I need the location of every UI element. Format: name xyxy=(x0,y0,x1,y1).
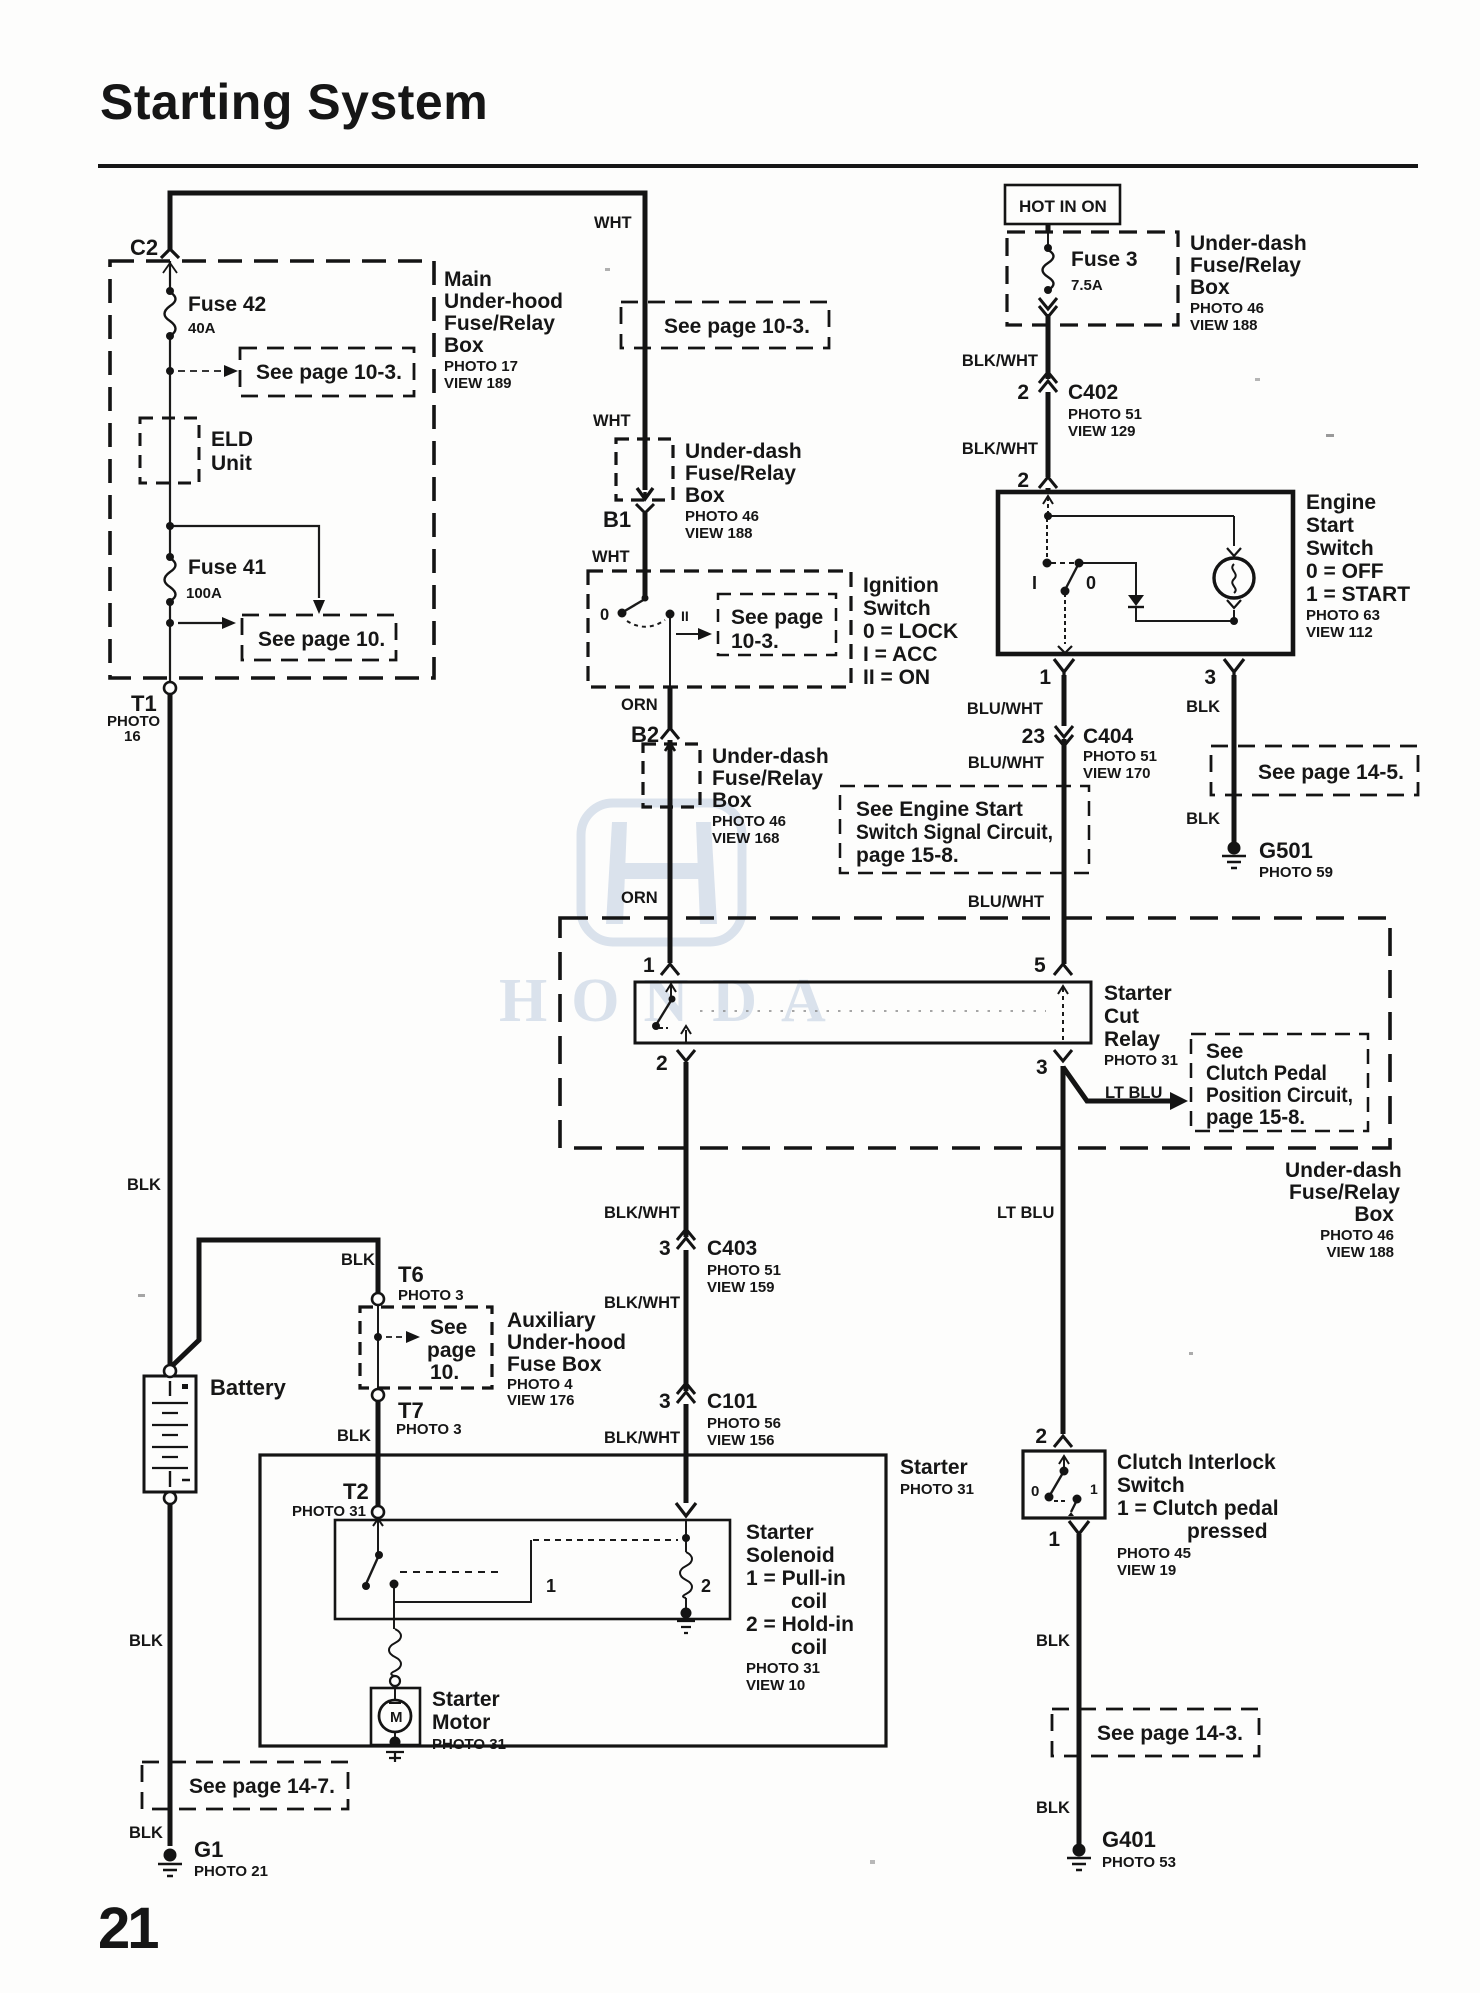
svg-text:PHOTO 21: PHOTO 21 xyxy=(194,1863,268,1880)
svg-text:LT BLU: LT BLU xyxy=(997,1204,1054,1222)
svg-text:0: 0 xyxy=(1031,1483,1039,1500)
svg-text:WHT: WHT xyxy=(594,214,632,232)
svg-text:BLK/WHT: BLK/WHT xyxy=(962,440,1038,458)
svg-text:I: I xyxy=(1032,573,1037,593)
svg-text:BLK: BLK xyxy=(1036,1799,1070,1817)
svg-text:5: 5 xyxy=(1034,954,1046,977)
svg-text:40A: 40A xyxy=(188,320,216,337)
svg-text:Relay: Relay xyxy=(1104,1028,1160,1051)
svg-text:PHOTO 31: PHOTO 31 xyxy=(292,1503,366,1520)
svg-text:3: 3 xyxy=(659,1237,671,1260)
svg-text:Fuse/Relay: Fuse/Relay xyxy=(712,767,823,790)
svg-text:7.5A: 7.5A xyxy=(1071,277,1103,294)
svg-text:PHOTO 31: PHOTO 31 xyxy=(746,1660,820,1677)
svg-text:B1: B1 xyxy=(603,507,631,532)
svg-text:PHOTO 53: PHOTO 53 xyxy=(1102,1854,1176,1871)
svg-text:2: 2 xyxy=(1035,1425,1047,1448)
svg-text:See Engine Start: See Engine Start xyxy=(856,798,1023,821)
svg-text:Box: Box xyxy=(1354,1203,1394,1226)
svg-text:VIEW 188: VIEW 188 xyxy=(1326,1244,1394,1261)
svg-text:See: See xyxy=(1206,1040,1243,1063)
svg-text:C101: C101 xyxy=(707,1390,758,1413)
svg-text:PHOTO 31: PHOTO 31 xyxy=(900,1481,974,1498)
svg-text:BLU/WHT: BLU/WHT xyxy=(968,893,1044,911)
svg-text:page 15-8.: page 15-8. xyxy=(856,844,959,867)
svg-text:1: 1 xyxy=(643,954,655,977)
svg-text:Fuse Box: Fuse Box xyxy=(507,1353,602,1376)
svg-text:Fuse 42: Fuse 42 xyxy=(188,293,266,316)
svg-text:Switch: Switch xyxy=(863,597,931,620)
svg-text:PHOTO 17: PHOTO 17 xyxy=(444,358,518,375)
svg-text:3: 3 xyxy=(1204,666,1216,689)
svg-text:BLK: BLK xyxy=(1186,810,1220,828)
svg-text:1 = START: 1 = START xyxy=(1306,583,1410,606)
svg-text:BLU/WHT: BLU/WHT xyxy=(968,754,1044,772)
svg-text:VIEW 188: VIEW 188 xyxy=(685,525,753,542)
svg-text:VIEW 156: VIEW 156 xyxy=(707,1432,775,1449)
svg-text:0: 0 xyxy=(1086,573,1096,593)
svg-text:Switch: Switch xyxy=(1117,1474,1185,1497)
svg-text:I = ACC: I = ACC xyxy=(863,643,937,666)
svg-text:Starter: Starter xyxy=(746,1521,814,1544)
svg-text:pressed: pressed xyxy=(1187,1520,1268,1543)
svg-text:T2: T2 xyxy=(343,1479,369,1504)
svg-text:2: 2 xyxy=(1017,381,1029,404)
svg-text:HOT IN ON: HOT IN ON xyxy=(1019,197,1107,216)
svg-text:Auxiliary: Auxiliary xyxy=(507,1309,596,1332)
svg-text:2: 2 xyxy=(701,1576,711,1596)
svg-text:PHOTO 46: PHOTO 46 xyxy=(1190,300,1264,317)
svg-text:Fuse 41: Fuse 41 xyxy=(188,556,267,579)
svg-text:0 = LOCK: 0 = LOCK xyxy=(863,620,958,643)
svg-text:Switch: Switch xyxy=(1306,537,1374,560)
svg-text:Under-hood: Under-hood xyxy=(507,1331,626,1354)
svg-text:3: 3 xyxy=(659,1390,671,1413)
svg-text:Starter: Starter xyxy=(432,1688,500,1711)
svg-text:See page: See page xyxy=(731,606,823,629)
svg-text:23: 23 xyxy=(1022,725,1045,748)
svg-text:BLK: BLK xyxy=(1186,698,1220,716)
svg-text:Under-dash: Under-dash xyxy=(712,745,829,768)
svg-text:VIEW 10: VIEW 10 xyxy=(746,1677,805,1694)
svg-text:1: 1 xyxy=(546,1576,556,1596)
svg-text:PHOTO 51: PHOTO 51 xyxy=(1083,748,1157,765)
svg-text:M: M xyxy=(390,1709,403,1726)
svg-text:Box: Box xyxy=(685,484,725,507)
svg-text:VIEW 170: VIEW 170 xyxy=(1083,765,1151,782)
svg-text:VIEW 159: VIEW 159 xyxy=(707,1279,775,1296)
svg-text:Under-dash: Under-dash xyxy=(685,440,802,463)
svg-text:ORN: ORN xyxy=(621,889,658,907)
svg-text:Fuse/Relay: Fuse/Relay xyxy=(1190,254,1301,277)
svg-text:16: 16 xyxy=(124,728,141,745)
svg-text:PHOTO 31: PHOTO 31 xyxy=(432,1736,506,1753)
svg-text:Starter: Starter xyxy=(900,1456,968,1479)
svg-text:Ignition: Ignition xyxy=(863,574,939,597)
svg-text:See: See xyxy=(430,1316,467,1339)
svg-text:0: 0 xyxy=(600,606,609,624)
svg-text:BLK: BLK xyxy=(129,1824,163,1842)
svg-text:VIEW 176: VIEW 176 xyxy=(507,1392,575,1409)
svg-text:1 = Clutch pedal: 1 = Clutch pedal xyxy=(1117,1497,1279,1520)
svg-text:Position Circuit,: Position Circuit, xyxy=(1206,1084,1353,1107)
svg-text:BLK: BLK xyxy=(1036,1632,1070,1650)
svg-text:II: II xyxy=(681,608,689,624)
svg-text:Unit: Unit xyxy=(211,452,252,475)
svg-text:PHOTO 3: PHOTO 3 xyxy=(398,1287,464,1304)
svg-text:2: 2 xyxy=(1017,469,1029,492)
svg-text:Box: Box xyxy=(1190,276,1230,299)
svg-text:PHOTO 46: PHOTO 46 xyxy=(1320,1227,1394,1244)
svg-text:BLK/WHT: BLK/WHT xyxy=(604,1429,680,1447)
svg-text:PHOTO 46: PHOTO 46 xyxy=(685,508,759,525)
svg-text:Box: Box xyxy=(712,789,752,812)
svg-text:BLK: BLK xyxy=(127,1176,161,1194)
svg-text:G501: G501 xyxy=(1259,838,1313,863)
svg-text:Clutch Pedal: Clutch Pedal xyxy=(1206,1062,1327,1085)
svg-text:VIEW 168: VIEW 168 xyxy=(712,830,780,847)
svg-text:Cut: Cut xyxy=(1104,1005,1139,1028)
svg-text:Switch Signal Circuit,: Switch Signal Circuit, xyxy=(856,821,1053,844)
svg-text:See page 14-5.: See page 14-5. xyxy=(1258,761,1404,784)
svg-text:10.: 10. xyxy=(430,1361,459,1384)
svg-text:0 = OFF: 0 = OFF xyxy=(1306,560,1384,583)
svg-text:ELD: ELD xyxy=(211,428,253,451)
svg-text:VIEW 188: VIEW 188 xyxy=(1190,317,1258,334)
svg-text:1 = Pull-in: 1 = Pull-in xyxy=(746,1567,846,1590)
svg-text:G1: G1 xyxy=(194,1837,223,1862)
svg-text:Box: Box xyxy=(444,334,484,357)
svg-text:WHT: WHT xyxy=(593,412,631,430)
svg-text:See page 14-3.: See page 14-3. xyxy=(1097,1722,1243,1745)
svg-text:C404: C404 xyxy=(1083,725,1134,748)
svg-text:VIEW 189: VIEW 189 xyxy=(444,375,512,392)
svg-text:VIEW 112: VIEW 112 xyxy=(1306,624,1373,641)
svg-text:2: 2 xyxy=(656,1052,668,1075)
svg-text:PHOTO 4: PHOTO 4 xyxy=(507,1376,573,1393)
svg-text:T7: T7 xyxy=(398,1398,424,1423)
svg-text:PHOTO 63: PHOTO 63 xyxy=(1306,607,1380,624)
svg-text:Fuse/Relay: Fuse/Relay xyxy=(444,312,555,335)
svg-text:3: 3 xyxy=(1036,1056,1048,1079)
svg-text:Start: Start xyxy=(1306,514,1354,537)
svg-text:VIEW 19: VIEW 19 xyxy=(1117,1562,1176,1579)
svg-text:BLK/WHT: BLK/WHT xyxy=(604,1294,680,1312)
svg-text:Under-dash: Under-dash xyxy=(1190,232,1307,255)
svg-text:WHT: WHT xyxy=(592,548,630,566)
svg-text:Engine: Engine xyxy=(1306,491,1376,514)
svg-text:PHOTO 59: PHOTO 59 xyxy=(1259,864,1333,881)
svg-text:Clutch Interlock: Clutch Interlock xyxy=(1117,1451,1276,1474)
svg-text:ORN: ORN xyxy=(621,696,658,714)
svg-text:coil: coil xyxy=(791,1636,827,1659)
svg-text:See page 10-3.: See page 10-3. xyxy=(664,315,810,338)
svg-text:coil: coil xyxy=(791,1590,827,1613)
svg-text:VIEW 129: VIEW 129 xyxy=(1068,423,1136,440)
svg-text:Main: Main xyxy=(444,268,492,291)
svg-text:See page 10-3.: See page 10-3. xyxy=(256,361,402,384)
svg-text:10-3.: 10-3. xyxy=(731,630,779,653)
svg-text:C403: C403 xyxy=(707,1237,757,1260)
svg-text:See page 14-7.: See page 14-7. xyxy=(189,1775,335,1798)
svg-text:page: page xyxy=(427,1339,476,1362)
svg-text:PHOTO 3: PHOTO 3 xyxy=(396,1421,462,1438)
svg-text:Under-hood: Under-hood xyxy=(444,290,563,313)
svg-text:T6: T6 xyxy=(398,1262,424,1287)
svg-text:100A: 100A xyxy=(186,585,222,602)
svg-text:PHOTO 45: PHOTO 45 xyxy=(1117,1545,1191,1562)
svg-text:Battery: Battery xyxy=(210,1375,287,1400)
svg-text:BLK: BLK xyxy=(341,1251,375,1269)
svg-text:PHOTO 51: PHOTO 51 xyxy=(1068,406,1142,423)
svg-text:II = ON: II = ON xyxy=(863,666,930,689)
svg-text:LT BLU: LT BLU xyxy=(1105,1084,1162,1102)
svg-text:PHOTO 46: PHOTO 46 xyxy=(712,813,786,830)
svg-text:C2: C2 xyxy=(130,235,158,260)
svg-text:PHOTO 31: PHOTO 31 xyxy=(1104,1052,1178,1069)
svg-text:Solenoid: Solenoid xyxy=(746,1544,835,1567)
svg-text:1: 1 xyxy=(1048,1528,1060,1551)
svg-text:Fuse/Relay: Fuse/Relay xyxy=(1289,1181,1400,1204)
svg-text:Fuse/Relay: Fuse/Relay xyxy=(685,462,796,485)
svg-text:PHOTO 51: PHOTO 51 xyxy=(707,1262,781,1279)
svg-text:21: 21 xyxy=(98,1896,158,1961)
svg-text:BLK/WHT: BLK/WHT xyxy=(962,352,1038,370)
svg-text:1: 1 xyxy=(1039,666,1051,689)
svg-text:Under-dash: Under-dash xyxy=(1285,1159,1402,1182)
svg-text:Starting System: Starting System xyxy=(100,74,488,130)
svg-text:See page 10.: See page 10. xyxy=(258,628,385,651)
svg-text:page 15-8.: page 15-8. xyxy=(1206,1106,1305,1129)
svg-text:Motor: Motor xyxy=(432,1711,490,1734)
svg-text:PHOTO 56: PHOTO 56 xyxy=(707,1415,781,1432)
svg-text:1: 1 xyxy=(1090,1481,1098,1497)
svg-text:B2: B2 xyxy=(631,722,659,747)
svg-text:BLK: BLK xyxy=(129,1632,163,1650)
svg-text:2 = Hold-in: 2 = Hold-in xyxy=(746,1613,854,1636)
svg-text:Fuse 3: Fuse 3 xyxy=(1071,248,1138,271)
svg-text:BLU/WHT: BLU/WHT xyxy=(967,700,1043,718)
svg-text:BLK: BLK xyxy=(337,1427,371,1445)
svg-text:C402: C402 xyxy=(1068,381,1118,404)
svg-text:BLK/WHT: BLK/WHT xyxy=(604,1204,680,1222)
svg-text:G401: G401 xyxy=(1102,1827,1156,1852)
svg-text:Starter: Starter xyxy=(1104,982,1172,1005)
